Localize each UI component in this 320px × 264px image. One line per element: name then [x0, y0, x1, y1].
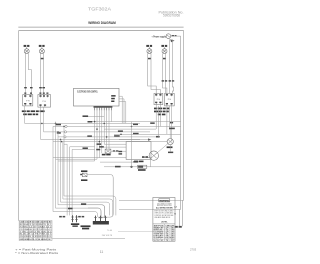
wire labels left of door lock box: [119, 151, 123, 155]
warning bar: [159, 199, 170, 202]
svg-text:P H: P H: [26, 100, 30, 102]
wire code mark below lamp: [168, 152, 173, 154]
wire bottom bus 6: [53, 212, 98, 217]
infinite switch SW4: [162, 47, 167, 54]
wire left riser group: [53, 122, 63, 212]
svg-text:USE AND CARE BOOK: USE AND CARE BOOK: [154, 216, 171, 219]
fuse label: [138, 169, 146, 171]
switch box B1: [23, 95, 33, 106]
broil element loop: [87, 175, 113, 218]
wire bus m9: [104, 143, 126, 145]
wire label m6: [114, 135, 120, 137]
label under right switch boxes line 2: [154, 111, 169, 113]
leader line to notes: [118, 231, 153, 233]
wire right risers from B3 B4: [156, 105, 171, 142]
wire with connector pair: [142, 157, 151, 159]
bottom long line: [52, 237, 125, 239]
label under left switch boxes line 2: [23, 114, 38, 116]
svg-text:+ Power supply: + Power supply: [152, 36, 167, 38]
wire from B2 down and right: [44, 107, 150, 132]
wire N jog to bottom: [179, 209, 182, 226]
terminal block TB posts: [96, 216, 106, 221]
svg-text:-NOTE-: -NOTE-: [161, 222, 168, 224]
svg-text:5995376958: 5995376958: [163, 14, 180, 18]
wire right bus L2: [183, 31, 185, 201]
wire oven light drop: [169, 145, 171, 152]
infinite switch SW1 label: [24, 45, 30, 47]
wire left bus: [18, 31, 20, 221]
svg-text:P H: P H: [168, 99, 172, 101]
wire labels cluster left of door switch: [96, 143, 104, 150]
door lock label: [134, 161, 144, 163]
bake element nested loop 2: [88, 208, 101, 219]
inline fuse F2: [138, 165, 147, 168]
label under right switch boxes line 1: [154, 108, 170, 110]
wire SW2 right lead: [43, 54, 45, 95]
svg-text:TGF302A: TGF302A: [88, 7, 112, 12]
wire L2 jog to bottom: [182, 200, 185, 226]
wire bus m5: [104, 128, 156, 130]
EOC right pin labels: [111, 95, 115, 102]
wire SW4 right lead: [165, 54, 167, 94]
wire SW3 right lead: [151, 54, 160, 94]
wire EOC stub 1: [119, 96, 122, 123]
wire supply drop 2 with jog: [172, 39, 173, 93]
wire bottom bus 5: [56, 208, 102, 217]
wire label on bus m1: [83, 115, 89, 117]
door switch label: [102, 154, 111, 156]
notes centered lines: [157, 203, 172, 207]
svg-text:LOCK: LOCK: [154, 240, 165, 242]
label under right switch boxes line 3: [158, 114, 166, 116]
thermostat TOD posts: [73, 215, 77, 222]
infinite switch SW1: [24, 47, 29, 54]
svg-text:1-2: 1-2: [165, 240, 174, 242]
wire lamp diagonal: [154, 144, 167, 155]
wire code mark under SW3: [148, 58, 151, 60]
wire bottom right feed 2: [119, 208, 180, 210]
svg-text:WIRING DIAGRAM: WIRING DIAGRAM: [88, 20, 116, 25]
wire horizontal lower group: [53, 158, 126, 161]
wire word after connector: [172, 35, 177, 36]
wire label before fuse: [115, 166, 121, 168]
svg-text:ALL WIRING SHOWN: ALL WIRING SHOWN: [156, 206, 173, 209]
label under left switch boxes line 1: [22, 110, 45, 112]
legend table rows text: [20, 222, 52, 241]
infinite switch SW3 label: [146, 45, 152, 47]
wire connector to N bus: [171, 35, 181, 37]
switch box B3: [154, 93, 163, 104]
infinite switch SW2 label: [39, 45, 45, 47]
wire EOC stub 2: [119, 99, 124, 124]
wire arrow segment mid low: [100, 161, 137, 163]
svg-text:2703: 2703: [190, 247, 197, 251]
wire code marks SW1 leads: [24, 87, 32, 88]
wire supply drop 1: [168, 39, 170, 93]
svg-text:L2: L2: [174, 206, 177, 208]
wire riser x131: [131, 122, 133, 167]
notes paragraph: [154, 210, 174, 219]
svg-text:ELECTRONIC OVEN CONTROL: ELECTRONIC OVEN CONTROL: [77, 91, 98, 94]
electronic oven control box U1: [74, 88, 120, 106]
notes box: [153, 198, 175, 242]
wire from B1 down and right: [25, 106, 140, 124]
wire code marks right leads row: [162, 80, 175, 81]
arrow under connector: [170, 39, 174, 42]
wire SW2 left lead: [40, 54, 42, 95]
wire bottom bus 3: [61, 202, 110, 215]
wire from connector to right: [148, 158, 151, 167]
wire label m5c: [57, 132, 61, 134]
infinite switch SW3: [147, 47, 152, 54]
wire label on bus near lamp: [170, 122, 173, 124]
wire label on bus m2: [88, 121, 93, 123]
wire SW1 left lead: [24, 54, 26, 95]
terminal block base: [93, 221, 109, 225]
svg-text:240 VOLTS: 240 VOLTS: [102, 235, 113, 237]
notes divider: [153, 223, 175, 225]
terminal block label: [81, 225, 91, 229]
EOC connector comb: [94, 106, 113, 110]
wire bottom bus 2: [63, 199, 113, 215]
wire from B2 second lead: [41, 107, 141, 139]
svg-text:11: 11: [100, 250, 104, 254]
fuse F1 on loop wire: [81, 170, 87, 172]
wire bottom bus 1: [64, 196, 116, 215]
svg-text:P H: P H: [43, 101, 47, 103]
junction dots mid: [41, 121, 132, 143]
header rule: [18, 26, 183, 28]
legend table grid: [19, 221, 52, 241]
switch box B4: [165, 93, 175, 106]
svg-text:WARNING: WARNING: [159, 200, 169, 203]
wire bus m2: [88, 121, 181, 123]
wire bus m1: [83, 116, 105, 118]
door lock box: [126, 142, 151, 160]
wire arrow above door lock: [119, 139, 148, 141]
wire right inner bus N: [180, 36, 182, 209]
wire code mark under SW4: [163, 58, 166, 60]
oven light label bar: [167, 146, 173, 148]
power supply connector: [166, 34, 171, 39]
svg-text:P H: P H: [157, 99, 161, 101]
wire bundle below EOC: [95, 110, 127, 161]
switch box B2: [38, 95, 51, 108]
svg-text:* = Non-Illustrated Parts: * = Non-Illustrated Parts: [15, 251, 59, 255]
wire label m9: [83, 147, 88, 149]
junction dot fuse bus: [130, 166, 132, 168]
wire code mark under SW2: [41, 58, 44, 60]
wire bus m6: [114, 133, 181, 135]
wire label m3: [56, 124, 61, 126]
wire labels bottom buses: [59, 203, 86, 217]
svg-text:GND GREEN-YEL 12 SH SHIELD 18: GND GREEN-YEL 12 SH SHIELD 18 7: [20, 239, 52, 241]
wire code marks SW2 leads: [39, 87, 45, 88]
wire label m2c: [150, 122, 155, 124]
wire door switch to lock box: [111, 150, 126, 152]
infinite switch SW2: [39, 47, 44, 54]
wire bottom right feed 1: [119, 199, 183, 201]
wire label m7b: [87, 135, 92, 136]
wire L1 top bus: [19, 30, 184, 32]
wire code mark right risers: [169, 128, 175, 130]
wire bus m8: [53, 141, 167, 143]
oven light OL1: [167, 139, 173, 145]
wire bottom bus 4: [58, 205, 105, 217]
wire fuse bus: [104, 166, 181, 168]
bake element nested loop 1: [88, 205, 105, 218]
wire SW3 left lead: [148, 54, 157, 94]
wire SW4 left lead: [163, 54, 167, 94]
infinite switch SW4 label: [161, 45, 167, 47]
door lock motor circle: [149, 151, 158, 160]
wire SW1 right lead with elbow: [28, 54, 31, 95]
connector circles on buses: [64, 125, 67, 138]
svg-text:TL-40: TL-40: [107, 230, 112, 232]
wire bus m4: [53, 125, 181, 127]
svg-text:GN GREEN 14 BR BROWN 16 6: GN GREEN 14 BR BROWN 16 6: [20, 236, 52, 238]
wire end marks bottom right: [175, 226, 182, 228]
TOD label: [71, 223, 79, 225]
notes table: [153, 224, 175, 241]
door switch DS1: [105, 149, 111, 153]
wire label m6b: [133, 133, 139, 135]
wire bus m7: [58, 136, 160, 138]
wire code mark loop start: [80, 174, 82, 175]
wire label m5b: [118, 130, 123, 132]
wire EOC stub 3: [119, 102, 126, 124]
connector pair right of door switch: [113, 150, 119, 152]
wire label m2b: [133, 124, 138, 126]
wire mid risers to bottom: [64, 126, 95, 215]
terminal number marks above left boxes: [24, 93, 48, 94]
